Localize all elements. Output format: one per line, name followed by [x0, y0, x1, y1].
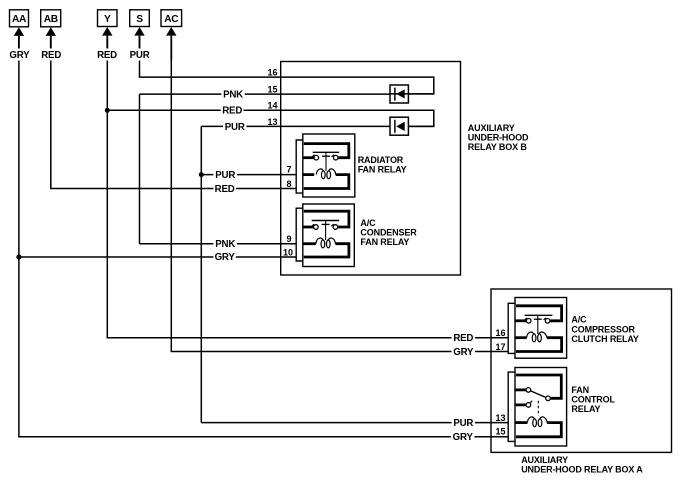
wire RED stub from AB arrow: [50, 36, 52, 49]
wire label GRY on wire 15 box A: [451, 432, 475, 444]
diode D1: [390, 85, 408, 103]
svg-text:17: 17: [495, 342, 505, 352]
arrow into Y: [102, 27, 112, 36]
svg-text:14: 14: [267, 101, 277, 111]
wire label GRY on wire 10: [213, 252, 235, 264]
relay R2 a/c condenser fan relay: [303, 204, 355, 267]
wire RED stub from Y arrow: [106, 36, 108, 49]
connector bracket for pins 9 10: [296, 208, 303, 261]
svg-text:13: 13: [495, 413, 505, 423]
junction dot on Y wire at RED 14 branch: [105, 108, 110, 113]
svg-text:PUR: PUR: [215, 170, 235, 181]
wire PUR vertical: links pin 13 box B, pin 7, pin 13 box A: [200, 126, 202, 422]
wire label RED under Y: [96, 50, 118, 62]
svg-text:RADIATOR: RADIATOR: [358, 155, 404, 165]
svg-text:RED: RED: [97, 50, 117, 61]
svg-text:UNDER-HOOD RELAY BOX A: UNDER-HOOD RELAY BOX A: [521, 464, 643, 474]
svg-text:AB: AB: [44, 14, 58, 25]
svg-text:FAN: FAN: [571, 385, 589, 395]
svg-text:PNK: PNK: [223, 90, 243, 101]
connector Y: [98, 10, 118, 27]
svg-text:COMPRESSOR: COMPRESSOR: [571, 324, 635, 334]
arrow into AA: [14, 27, 24, 36]
wire RED: Y stem down, corner to compressor clutch relay pin 16: [107, 61, 508, 338]
svg-text:Y: Y: [104, 14, 111, 25]
wire label PUR on wire 7: [213, 170, 237, 182]
label a/c compressor clutch relay: [571, 315, 639, 344]
label a/c condenser fan relay: [360, 218, 417, 247]
label radiator fan relay: [358, 155, 407, 175]
diode D2: [390, 117, 408, 135]
wire label GRY under AA: [8, 50, 31, 62]
svg-text:PUR: PUR: [453, 418, 473, 429]
svg-text:GRY: GRY: [215, 252, 236, 263]
wire GRY stub from AA arrow: [18, 36, 20, 49]
svg-text:10: 10: [283, 247, 293, 257]
wire label PUR on wire 13 box A: [452, 418, 476, 430]
connector bracket for pins 13 15: [508, 372, 515, 441]
label auxiliary under-hood relay box a: [521, 455, 643, 475]
connector AC: [161, 10, 182, 27]
svg-text:15: 15: [495, 427, 505, 437]
wire PNK 9: to condenser fan relay pin 9: [140, 243, 297, 245]
wire PNK 15: to diode D1: [140, 93, 391, 95]
svg-text:A/C: A/C: [571, 315, 587, 325]
wire PUR 13: to fan control relay pin 13: [201, 422, 508, 424]
svg-text:CONTROL: CONTROL: [571, 395, 615, 405]
svg-text:FAN RELAY: FAN RELAY: [358, 164, 407, 174]
wire label RED on wire 8: [213, 183, 235, 195]
svg-text:RELAY: RELAY: [571, 404, 600, 414]
svg-text:AA: AA: [12, 14, 27, 25]
svg-text:PUR: PUR: [225, 122, 245, 133]
wire GRY: AA stem down to bottom, corner to relay box A pin 15: [19, 61, 508, 437]
svg-text:16: 16: [495, 328, 505, 338]
arrow into AB: [46, 27, 56, 36]
wire label RED on wire 14: [221, 105, 244, 117]
svg-text:PUR: PUR: [130, 50, 150, 61]
wire label RED on wire 16 box A: [452, 333, 476, 345]
svg-text:8: 8: [286, 179, 291, 189]
wire label PNK on wire 9: [213, 239, 237, 251]
svg-text:RED: RED: [453, 333, 473, 344]
wire from diode D1 right side up to pin 16 line: [390, 93, 434, 95]
svg-text:16: 16: [267, 68, 277, 78]
wire PUR 7: to radiator fan relay pin 7: [201, 174, 296, 176]
svg-text:RELAY BOX B: RELAY BOX B: [468, 142, 528, 152]
connector bracket for pins 7 8: [296, 140, 303, 193]
arrow into AC: [166, 27, 176, 36]
svg-text:13: 13: [267, 117, 277, 127]
wire label PUR on wire 13: [223, 121, 246, 133]
svg-text:CLUTCH RELAY: CLUTCH RELAY: [571, 334, 639, 344]
wire PNK: vertical link between pin 15 and pin 9: [139, 94, 141, 244]
wire PUR stub from S arrow: [139, 36, 141, 49]
svg-text:RED: RED: [41, 50, 61, 61]
wire label RED under AB: [40, 50, 62, 62]
svg-text:7: 7: [286, 165, 291, 175]
svg-text:15: 15: [267, 84, 277, 94]
connector bracket for pins 16 17: [508, 303, 515, 353]
svg-text:S: S: [136, 14, 143, 25]
relay box A outline: [491, 289, 672, 452]
wire stub from AC arrow: [170, 36, 172, 61]
arrow into S: [134, 27, 144, 36]
wire label GRY on wire 17 box A: [452, 346, 476, 358]
connector AB: [41, 10, 61, 27]
junction dot on AA wire at GRY branch: [16, 254, 21, 259]
svg-text:PNK: PNK: [215, 239, 235, 250]
svg-text:FAN RELAY: FAN RELAY: [360, 237, 409, 247]
junction dot on PUR vertical at pin 7 branch: [199, 172, 204, 177]
connector AA: [10, 10, 29, 27]
connector S: [130, 10, 150, 27]
wire RED: AB stem down, corner to radiator fan relay pin 8: [51, 61, 296, 189]
svg-text:RED: RED: [222, 106, 242, 117]
svg-text:AUXILIARY: AUXILIARY: [521, 455, 568, 465]
svg-text:GRY: GRY: [9, 50, 30, 61]
wire PUR: S stem down, corner to relay box B pin 16: [140, 61, 434, 94]
label auxiliary under-hood relay box b: [468, 123, 529, 152]
relay R4 fan control relay: [515, 368, 567, 447]
wire label PUR under S: [129, 50, 151, 62]
wire GRY 10: from AA junction to condenser fan relay pin 10: [19, 256, 296, 258]
label fan control relay: [571, 385, 615, 414]
svg-text:GRY: GRY: [453, 432, 474, 443]
wire PUR 13: diode D2 to PUR vertical: [201, 125, 390, 127]
svg-text:GRY: GRY: [453, 347, 474, 358]
relay R3 a/c compressor clutch relay: [515, 298, 567, 359]
relay R1 radiator fan relay: [303, 134, 355, 197]
wire RED 14: from Y junction into relay box B pin 14, down to diode D2: [107, 110, 434, 126]
svg-text:9: 9: [286, 234, 291, 244]
relay box B outline: [281, 62, 461, 276]
wire from diode D2 right side: [408, 125, 433, 127]
wire AC stem down, corner to compressor clutch relay pin 17: [171, 61, 508, 352]
svg-text:RED: RED: [215, 184, 235, 195]
svg-text:CONDENSER: CONDENSER: [360, 227, 417, 237]
svg-text:AC: AC: [164, 14, 179, 25]
wire label PNK on wire 15: [221, 89, 244, 101]
